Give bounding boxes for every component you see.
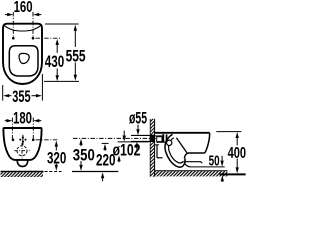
svg-text:ø102: ø102 (113, 141, 141, 159)
dim 160: left arrow (5, 14, 8, 16)
front view: small inlet marker (22, 135, 24, 145)
top view: water spot blob (19, 53, 29, 63)
side view: bracket black bar 1 (162, 134, 164, 142)
bottom extension line (top view) (44, 80, 79, 82)
floor: hatch band top line (155, 170, 228, 172)
dim 220: tick line (102, 142, 109, 144)
dim 430: bottom arrow (56, 69, 58, 77)
front view: left fixing hole (12, 139, 15, 142)
dim 350: up arrow (79, 139, 82, 145)
top view: outer pan outline (3, 24, 42, 84)
front view: outlet target dashed circle (17, 146, 27, 156)
dim 355: right extension line (41, 74, 43, 101)
svg-text:220: 220 (96, 151, 116, 170)
side view: pan back vertical (156, 145, 158, 158)
dim 50: down arrow (221, 156, 223, 162)
top view: left hinge hole (12, 37, 15, 40)
top view: right hinge hole (32, 37, 35, 40)
dim 400: up arrow (236, 132, 239, 138)
dim 430: top arrow (56, 39, 59, 45)
top view: inner seat ring (9, 46, 38, 76)
dim 180: right centerline (32, 118, 34, 140)
dim 355: right arrow (32, 95, 37, 97)
dim 355: left extension line (2, 85, 4, 101)
dim 320: top arrow (55, 141, 58, 147)
side view: fixing bolt rect (157, 137, 162, 142)
side view: bowl back diagonal (176, 138, 187, 153)
dim 555: top extension line (45, 23, 79, 25)
front view: right fixing hole (32, 139, 35, 142)
svg-text:50: 50 (209, 153, 220, 170)
dim 180: left arrow (5, 120, 8, 122)
floor: thick reference line right (220, 173, 246, 175)
side view: pan top second line (155, 135, 162, 137)
side view: lower shelf line (184, 162, 203, 164)
front view: outlet bump (17, 160, 28, 167)
front view: outlet target crosshair (14, 150, 29, 152)
side view: front face (205, 133, 210, 153)
floor: hatch band (155, 171, 228, 176)
side view: inlet pipe top (131, 134, 155, 136)
dim 160: right arrow (38, 14, 41, 16)
dim 160: left centerline (12, 12, 14, 38)
side view: back short horizontal (155, 144, 159, 146)
dim 555: bottom arrow (74, 63, 76, 76)
svg-text:350: 350 (73, 146, 95, 165)
dim 430: centerline extension (36, 37, 62, 39)
dim 350: down arrow (80, 161, 82, 166)
dim ø55: down arrow (137, 125, 139, 131)
dim 50: up arrow below floor (221, 175, 224, 181)
svg-text:160: 160 (14, 0, 33, 16)
dim 220: below-ground up arrow (101, 172, 104, 178)
dim 220: up arrow at tick (103, 144, 106, 150)
side view: back bottom horizontal (157, 157, 163, 159)
side view: trap to shelf connector (184, 163, 190, 167)
svg-text:355: 355 (12, 87, 30, 106)
side view: horizontal centerline (73, 137, 157, 139)
svg-text:180: 180 (13, 108, 32, 127)
dim 320: bottom arrow (55, 164, 57, 166)
dim 400: down arrow (236, 159, 238, 169)
dim 400: top extension line (216, 131, 241, 133)
side view: trap outer curve (165, 134, 185, 167)
dim 180: right arrow (38, 120, 41, 122)
dim 320: centerline extension (36, 139, 59, 141)
side view: pan top line (155, 132, 210, 134)
top view: seat lid curve (4, 25, 41, 31)
side view: bracket black bar 2 (166, 134, 168, 143)
svg-text:430: 430 (45, 52, 65, 71)
dim ø102: overline leader (118, 141, 149, 143)
dim ø102: up arrow (117, 155, 120, 161)
dim 180: left centerline (11, 118, 13, 140)
dim 355: left arrow (3, 94, 9, 97)
side view: inlet pipe bottom (131, 140, 155, 142)
dim 555: top arrow (74, 25, 77, 31)
front view: ground line (1, 171, 44, 173)
side view: bolt bottom bar (157, 141, 167, 143)
wall: boundary lines (149, 119, 151, 177)
dim 160: right centerline (32, 12, 34, 38)
dim ø102: down arrow (123, 131, 125, 137)
dim 50: extension line from trap bottom (190, 166, 225, 168)
ground dashed extension (45, 171, 62, 173)
front view: pan outline (3, 128, 41, 160)
side view: bottom line with curved left end (184, 153, 205, 158)
wall: hatch (150, 119, 155, 177)
side view: trap inner curve (169, 138, 184, 163)
side view: pipe crossing wall (dark band) (150, 135, 155, 142)
side view: ground line left of wall (72, 171, 118, 173)
side view: flush pipe circle (167, 140, 172, 145)
dim ø55: up arrow (135, 142, 138, 148)
front view: ground hatch (1, 172, 44, 177)
